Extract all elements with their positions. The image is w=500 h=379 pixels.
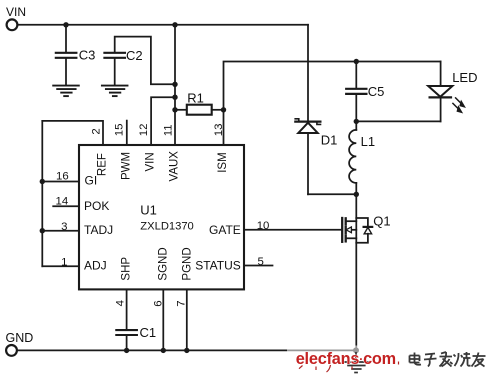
svg-text:ADJ: ADJ bbox=[84, 259, 107, 273]
channel dashes bbox=[345, 218, 347, 224]
junction C2 / pin11 column bbox=[172, 82, 177, 87]
svg-text:GND: GND bbox=[6, 331, 34, 345]
watermark elecfans.com bbox=[296, 350, 399, 372]
char 发 bbox=[440, 352, 453, 367]
junction top rail / C3 bbox=[63, 22, 68, 27]
wire LED return rail bbox=[356, 120, 440, 122]
LED light arrows bbox=[453, 98, 465, 113]
svg-text:C5: C5 bbox=[368, 84, 385, 99]
capacitor C2 bbox=[104, 37, 172, 85]
svg-text:L1: L1 bbox=[361, 134, 375, 149]
wire pin 12 jog bbox=[151, 97, 175, 145]
junction R1 / pin13 column bbox=[221, 107, 226, 112]
svg-text:C2: C2 bbox=[126, 48, 143, 63]
ground (C3) bbox=[53, 86, 79, 97]
svg-text:7: 7 bbox=[176, 300, 188, 306]
junction pin7 / ground rail bbox=[184, 348, 189, 353]
wire ground rail bbox=[17, 349, 356, 351]
drain stub bbox=[347, 220, 357, 222]
svg-text:ZXLD1370: ZXLD1370 bbox=[140, 221, 194, 233]
svg-text:SGND: SGND bbox=[157, 247, 169, 280]
LED bbox=[428, 62, 452, 122]
watermark translucent band bbox=[287, 346, 500, 376]
svg-text:6: 6 bbox=[152, 300, 164, 306]
wire pin 11 column (VIN node down to IC) bbox=[174, 25, 176, 145]
svg-text:15: 15 bbox=[113, 124, 125, 137]
IC pin names bbox=[84, 151, 241, 281]
svg-text:VIN: VIN bbox=[144, 152, 156, 171]
source stub bbox=[347, 237, 357, 239]
char 子 bbox=[424, 354, 437, 367]
svg-text:12: 12 bbox=[138, 124, 150, 137]
junction left column / pin16 bbox=[40, 179, 45, 184]
svg-text:GI: GI bbox=[85, 173, 98, 187]
terminal GND bbox=[6, 345, 17, 356]
svg-text:R1: R1 bbox=[187, 91, 204, 106]
source wire down bbox=[355, 243, 357, 351]
svg-text:SHP: SHP bbox=[120, 257, 132, 281]
gate bar bbox=[341, 218, 343, 242]
svg-text:REF: REF bbox=[96, 153, 108, 176]
wire D1 anode to switch node bbox=[308, 193, 356, 195]
svg-text:5: 5 bbox=[258, 256, 264, 268]
svg-text:D1: D1 bbox=[321, 132, 338, 147]
ground (C2) bbox=[102, 86, 128, 97]
svg-text:14: 14 bbox=[56, 196, 69, 208]
junction rail / C5 bbox=[354, 59, 359, 64]
junction C5 bottom / LED return rail bbox=[354, 119, 359, 124]
char 友 bbox=[472, 353, 486, 367]
junction Q1 source / ground rail bbox=[353, 347, 359, 353]
junction pin6 / ground rail bbox=[161, 348, 166, 353]
junction switch node (L1/D1/Q1) bbox=[354, 192, 359, 197]
svg-text:11: 11 bbox=[162, 124, 174, 136]
wire pin 13 column up to second rail bbox=[224, 62, 441, 146]
svg-text:PGND: PGND bbox=[181, 247, 193, 280]
IC U1 box bbox=[79, 145, 244, 289]
source strip vertical bbox=[355, 218, 357, 243]
svg-text:3: 3 bbox=[61, 221, 67, 233]
svg-text:STATUS: STATUS bbox=[195, 259, 241, 273]
junction R1 / pin11 column bbox=[172, 107, 177, 112]
ground (Q1 source) bbox=[343, 352, 369, 373]
svg-text:4: 4 bbox=[115, 300, 127, 306]
inductor L1 bbox=[349, 121, 356, 194]
capacitor C1 bbox=[116, 289, 137, 350]
svg-text:ISM: ISM bbox=[217, 152, 229, 172]
svg-text:13: 13 bbox=[213, 124, 225, 137]
transistor Q1 (NMOS with body diode) bbox=[342, 194, 372, 350]
svg-text:1: 1 bbox=[61, 257, 67, 269]
junction top rail / pin11 column bbox=[172, 22, 177, 27]
wire pin 2 stub and left rail bbox=[42, 121, 103, 145]
body arrow stub bbox=[351, 229, 356, 231]
junction C1 / ground rail bbox=[124, 348, 129, 353]
capacitor C3 bbox=[56, 25, 77, 85]
wire pin 6 stub (SGND) bbox=[162, 289, 164, 350]
wire pin 1 stub (ADJ) bbox=[42, 265, 79, 267]
wire VIN top rail to D1 bbox=[17, 24, 308, 26]
wire left column bbox=[41, 121, 43, 266]
wire pin 14 stub (POK, open) bbox=[53, 205, 79, 207]
wire pin 7 stub (PGND) bbox=[186, 289, 188, 350]
IC pin numbers bbox=[56, 124, 270, 307]
junction pin12 / pin11 column bbox=[172, 95, 177, 100]
wire pin 16 stub (GI) bbox=[42, 181, 79, 183]
resistor R1 bbox=[175, 105, 224, 115]
svg-text:PWM: PWM bbox=[120, 152, 132, 180]
svg-text:TADJ: TADJ bbox=[84, 223, 113, 237]
svg-text:U1: U1 bbox=[140, 202, 157, 217]
wire pin 15 stub (PWM, open) bbox=[126, 121, 128, 145]
svg-text:VIN: VIN bbox=[6, 5, 26, 19]
char 电 bbox=[410, 353, 422, 365]
wire STATUS stub bbox=[244, 265, 273, 267]
svg-text:VAUX: VAUX bbox=[168, 151, 180, 182]
svg-text:C3: C3 bbox=[79, 48, 96, 63]
svg-text:LED: LED bbox=[452, 70, 477, 85]
svg-text:Q1: Q1 bbox=[373, 214, 390, 229]
wire gate rail from IC bbox=[244, 229, 341, 231]
capacitor C5 bbox=[346, 62, 366, 122]
svg-text:C1: C1 bbox=[140, 325, 157, 340]
wire pin 3 stub (TADJ) bbox=[42, 230, 79, 232]
svg-text:GATE: GATE bbox=[209, 223, 241, 237]
diode D1 (schottky) bbox=[295, 25, 320, 195]
drain wire bbox=[355, 194, 357, 218]
logo drip marks bbox=[299, 362, 399, 373]
char 烧 bbox=[454, 352, 471, 367]
svg-text:elecfans·com: elecfans·com bbox=[296, 350, 396, 368]
watermark chinese 电子发烧友 bbox=[410, 352, 486, 367]
terminal VIN bbox=[7, 19, 18, 30]
junction left column / pin3 bbox=[40, 228, 45, 233]
svg-text:2: 2 bbox=[91, 128, 103, 134]
svg-text:POK: POK bbox=[84, 199, 109, 213]
svg-text:10: 10 bbox=[257, 220, 270, 232]
body diode branch bbox=[356, 218, 368, 227]
svg-text:16: 16 bbox=[56, 171, 69, 183]
